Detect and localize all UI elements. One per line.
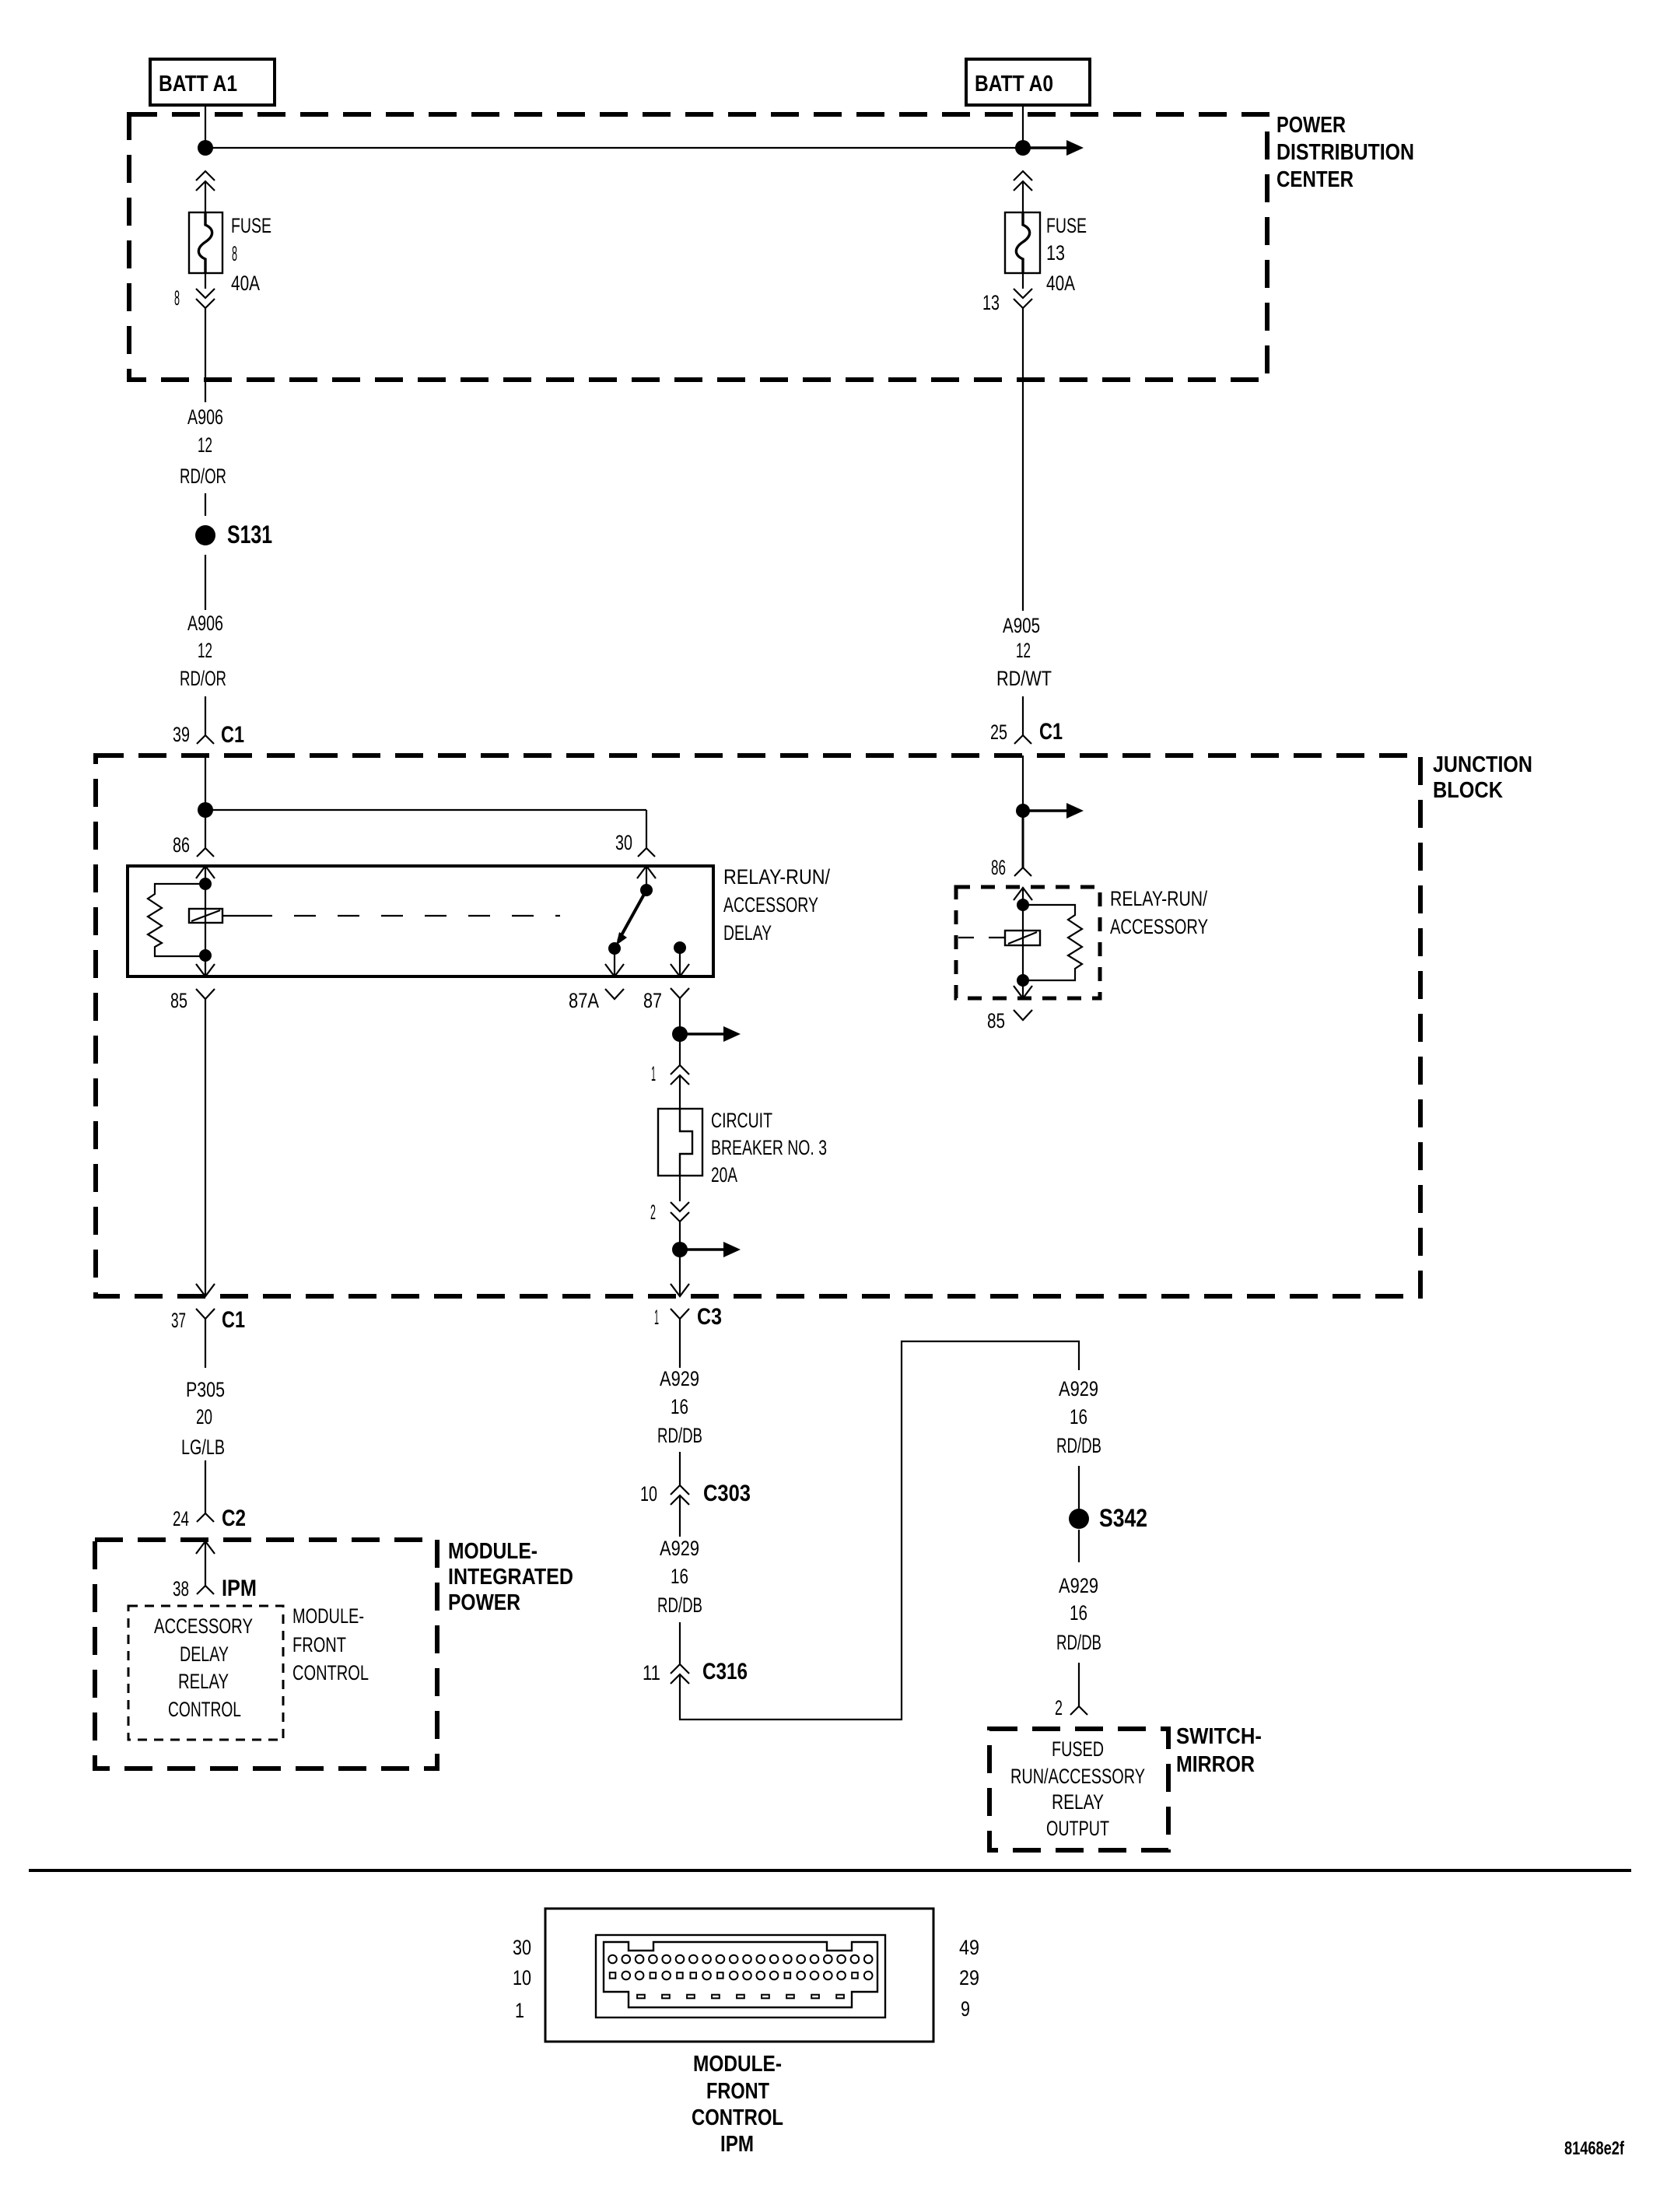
junction dot node left <box>198 802 213 818</box>
wire 87A to border <box>614 948 615 976</box>
node coil bottom <box>199 949 212 962</box>
wire 85 down to JB border <box>205 999 206 1296</box>
svg-text:13: 13 <box>982 291 1000 314</box>
svg-text:8: 8 <box>232 242 237 265</box>
svg-text:CONTROL: CONTROL <box>168 1698 241 1721</box>
wire into C316 <box>679 1622 681 1664</box>
relay run/accessory dashed box <box>956 887 1100 998</box>
node 87A contact <box>608 942 621 955</box>
module-front control IPM connector outer box <box>545 1909 933 2042</box>
svg-text:39: 39 <box>173 723 190 746</box>
svg-text:C316: C316 <box>702 1659 748 1684</box>
svg-text:12: 12 <box>198 433 212 457</box>
svg-text:CONTROL: CONTROL <box>692 2105 783 2130</box>
connector C316 pin 11 <box>643 1659 748 1684</box>
connector C1 pin 39 <box>173 722 244 748</box>
connector C303 pin 10 <box>640 1481 751 1506</box>
junction block dashed box <box>96 755 1420 1296</box>
wire to relay pin 86 <box>205 810 206 848</box>
mechanical link to switch (dashed) <box>222 915 560 917</box>
svg-text:CONTROL: CONTROL <box>292 1661 369 1684</box>
pin 85 exit chevron <box>196 964 215 976</box>
wire label A906 12 RD/OR (upper) <box>180 405 226 488</box>
wire route C316 to mirror switch column <box>680 1341 1079 1719</box>
relay coil <box>189 909 222 923</box>
svg-text:1: 1 <box>515 1999 524 2022</box>
wire 87 output to node <box>679 998 681 1034</box>
label RELAY-RUN/ ACCESSORY <box>1110 887 1208 938</box>
svg-text:A929: A929 <box>1059 1574 1098 1597</box>
pin 87A exit chevron <box>605 964 624 976</box>
svg-text:IPM: IPM <box>720 2132 754 2157</box>
svg-text:A929: A929 <box>1059 1377 1098 1400</box>
label FUSE 8 40A <box>231 214 271 295</box>
connector pin row 3 <box>637 1995 844 1999</box>
label MODULE-INTEGRATED POWER <box>448 1539 573 1615</box>
svg-text:2: 2 <box>1055 1696 1063 1719</box>
svg-text:MODULE-: MODULE- <box>448 1539 538 1564</box>
connector chevrons above fuse 13 <box>1014 171 1032 191</box>
svg-text:RELAY: RELAY <box>1052 1790 1104 1814</box>
svg-text:40A: 40A <box>1046 272 1075 295</box>
svg-text:C1: C1 <box>1039 719 1063 745</box>
svg-text:RD/DB: RD/DB <box>657 1424 702 1447</box>
wire from C1-39 into junction block <box>205 755 206 810</box>
connector C2 pin 24 <box>173 1506 246 1531</box>
arrow feed right 87 output <box>680 1026 741 1042</box>
relay coil right <box>1005 931 1040 945</box>
wire below fuse 13 <box>1022 273 1024 289</box>
svg-text:12: 12 <box>198 639 212 662</box>
svg-text:DISTRIBUTION: DISTRIBUTION <box>1277 140 1414 165</box>
relay pin 86 connector <box>173 833 214 857</box>
wire into C303 <box>679 1452 681 1485</box>
connector IPM pin 38 <box>173 1576 257 1601</box>
wire to junction block edge <box>679 1250 681 1296</box>
svg-text:C3: C3 <box>697 1304 722 1330</box>
svg-text:RD/OR: RD/OR <box>180 464 226 488</box>
svg-text:2: 2 <box>650 1201 656 1224</box>
resistor (relay coil suppression) <box>148 884 205 956</box>
svg-text:A906: A906 <box>187 405 223 429</box>
pin number labels left <box>513 1936 531 2022</box>
svg-text:38: 38 <box>173 1577 189 1600</box>
pin 85 connector right relay <box>987 1009 1032 1032</box>
wire label A929 16 RD/DB (2) <box>657 1537 702 1617</box>
mechanical link stub (dashed) <box>958 937 1005 938</box>
svg-text:1: 1 <box>654 1306 659 1329</box>
svg-text:RD/DB: RD/DB <box>657 1593 702 1617</box>
svg-text:BATT A0: BATT A0 <box>975 72 1053 96</box>
separator line <box>29 1869 1631 1872</box>
svg-text:JUNCTION: JUNCTION <box>1433 752 1532 777</box>
pin 87 connector <box>643 988 689 1012</box>
wire below breaker <box>679 1176 681 1201</box>
wire stub above S342 <box>1078 1466 1080 1509</box>
wire switch common <box>646 866 647 890</box>
svg-text:11: 11 <box>643 1661 660 1684</box>
svg-text:20A: 20A <box>711 1163 737 1187</box>
wire below C1-37 <box>205 1319 206 1368</box>
label ACCESSORY DELAY RELAY CONTROL <box>154 1614 253 1721</box>
relay-run/accessory pin 86 connector <box>991 856 1031 879</box>
module-integrated power dashed box <box>95 1540 437 1769</box>
svg-text:POWER: POWER <box>1277 113 1346 138</box>
svg-text:81468e2f: 81468e2f <box>1564 2138 1625 2159</box>
node coil bottom right relay <box>1017 974 1029 987</box>
svg-text:RD/DB: RD/DB <box>1056 1434 1101 1457</box>
svg-text:A929: A929 <box>660 1537 699 1560</box>
junction dot breaker output <box>672 1242 688 1257</box>
svg-text:FRONT: FRONT <box>292 1633 346 1656</box>
svg-text:C2: C2 <box>222 1506 246 1531</box>
svg-text:A905: A905 <box>1003 614 1040 637</box>
svg-text:16: 16 <box>1070 1405 1087 1429</box>
wire into fuse 13 <box>1022 181 1024 212</box>
svg-text:85: 85 <box>170 989 187 1012</box>
exit chevron at JB border <box>671 1284 689 1296</box>
node coil top <box>199 878 212 890</box>
svg-text:40A: 40A <box>231 272 260 295</box>
connector C1 pin 25 <box>990 719 1063 745</box>
svg-text:86: 86 <box>991 856 1006 879</box>
relay run/accessory delay box <box>128 866 713 976</box>
wire label A906 12 RD/OR (lower) <box>180 612 226 690</box>
svg-text:RUN/ACCESSORY: RUN/ACCESSORY <box>1010 1765 1145 1788</box>
svg-text:ACCESSORY: ACCESSORY <box>1110 915 1208 938</box>
wire below fuse 8 <box>205 273 206 289</box>
wire to relay pin 30 drop <box>646 810 647 848</box>
wire from C1-25 into junction block <box>1022 755 1024 811</box>
wire stub above S131 <box>205 493 206 516</box>
svg-text:20: 20 <box>196 1405 212 1429</box>
svg-text:FUSE: FUSE <box>1046 214 1087 237</box>
pin 86 entry chevron <box>196 866 215 878</box>
wire into connector C1 pin 39 <box>205 696 206 735</box>
connector C1 pin 37 <box>171 1307 245 1333</box>
svg-text:RELAY-RUN/: RELAY-RUN/ <box>723 865 830 889</box>
node coil top right relay <box>1017 899 1029 911</box>
wire across to relay pin 30 <box>205 809 646 811</box>
switch-mirror dashed box <box>989 1729 1168 1850</box>
power distribution center dashed box <box>129 114 1267 380</box>
label FUSE 13 40A <box>1046 214 1087 295</box>
wire label A929 16 RD/DB (3) <box>1056 1377 1101 1457</box>
svg-text:IPM: IPM <box>222 1576 257 1601</box>
svg-text:37: 37 <box>171 1309 186 1332</box>
junction dot 87 output <box>672 1026 688 1042</box>
svg-text:SWITCH-: SWITCH- <box>1176 1724 1262 1749</box>
svg-text:A929: A929 <box>660 1367 699 1390</box>
arrow feed right of BATT A0 node <box>1023 140 1084 156</box>
svg-text:INTEGRATED: INTEGRATED <box>448 1565 573 1590</box>
label MODULE-FRONT CONTROL <box>292 1604 369 1684</box>
svg-text:RELAY-RUN/: RELAY-RUN/ <box>1110 887 1207 910</box>
fuse 13 40A <box>1005 212 1040 273</box>
node BATT A0 <box>966 59 1090 105</box>
wire into circuit breaker <box>679 1075 681 1109</box>
svg-text:FUSE: FUSE <box>231 214 271 237</box>
svg-text:85: 85 <box>987 1009 1005 1032</box>
svg-text:16: 16 <box>671 1395 688 1418</box>
label FUSED RUN/ACCESSORY RELAY OUTPUT <box>1010 1737 1145 1840</box>
wire into fuse 8 <box>205 181 206 212</box>
svg-text:MIRROR: MIRROR <box>1176 1752 1255 1777</box>
connector C3 pin 1 <box>654 1304 722 1330</box>
label SWITCH-MIRROR <box>1176 1724 1262 1777</box>
pin number labels right <box>959 1936 979 2021</box>
svg-text:POWER: POWER <box>448 1590 520 1615</box>
svg-text:87: 87 <box>643 989 662 1012</box>
connector middle box <box>596 1935 885 2017</box>
wire battery bus <box>205 147 1023 149</box>
svg-text:CENTER: CENTER <box>1277 167 1354 192</box>
svg-text:MODULE-: MODULE- <box>292 1604 364 1628</box>
junction dot A0 <box>1015 140 1031 156</box>
wire to output node <box>679 1222 681 1250</box>
svg-text:RELAY: RELAY <box>178 1670 229 1693</box>
svg-text:8: 8 <box>174 286 180 310</box>
relay pin 30 connector <box>615 831 655 857</box>
svg-text:OUTPUT: OUTPUT <box>1046 1817 1109 1840</box>
svg-text:ACCESSORY: ACCESSORY <box>154 1614 253 1638</box>
pin 85 exit chevron right relay <box>1014 986 1032 998</box>
node switch common <box>640 884 653 896</box>
svg-text:P305: P305 <box>186 1378 225 1401</box>
wire IPM input with arrow <box>196 1541 215 1586</box>
svg-text:16: 16 <box>1070 1601 1087 1625</box>
svg-text:RD/WT: RD/WT <box>996 667 1052 690</box>
svg-text:FUSED: FUSED <box>1052 1737 1104 1761</box>
splice S342 <box>1069 1504 1147 1532</box>
wire 87 to border <box>679 948 681 976</box>
wire below S342 <box>1078 1530 1080 1562</box>
splice S131 <box>195 521 272 549</box>
pin 87 exit chevron <box>671 964 689 976</box>
exit chevron at JB border left <box>196 1284 215 1296</box>
svg-text:C1: C1 <box>221 722 244 748</box>
wire label A929 16 RD/DB (1) <box>657 1367 702 1447</box>
svg-text:S131: S131 <box>227 521 272 549</box>
svg-text:DELAY: DELAY <box>180 1642 229 1666</box>
svg-text:FRONT: FRONT <box>706 2079 769 2104</box>
connector pin row 1 <box>608 1955 872 1964</box>
junction dot node right <box>1016 804 1030 818</box>
svg-text:87A: 87A <box>569 989 599 1012</box>
arrow feed right breaker output <box>680 1242 741 1257</box>
connector chevrons breaker pin 2 <box>650 1201 689 1224</box>
svg-text:10: 10 <box>513 1966 531 1989</box>
wire into connector C1 pin 25 <box>1022 696 1024 735</box>
connector chevrons above fuse 8 <box>196 171 215 191</box>
svg-text:86: 86 <box>173 833 190 857</box>
wire label P305 20 LG/LB <box>181 1378 225 1459</box>
svg-text:25: 25 <box>990 720 1007 744</box>
svg-text:BATT A1: BATT A1 <box>159 72 237 96</box>
svg-text:C1: C1 <box>222 1307 245 1333</box>
svg-text:MODULE-: MODULE- <box>693 2052 782 2077</box>
svg-text:16: 16 <box>671 1565 688 1588</box>
label MODULE-FRONT CONTROL IPM <box>692 2052 783 2157</box>
node BATT A1 <box>150 59 275 105</box>
pin 30 entry chevron <box>637 866 656 878</box>
svg-text:30: 30 <box>513 1936 531 1959</box>
svg-text:24: 24 <box>173 1507 189 1530</box>
wire below C303 <box>679 1495 681 1537</box>
label CIRCUIT BREAKER NO.3 20A <box>711 1109 827 1187</box>
wire into mirror switch pin 2 <box>1078 1663 1080 1706</box>
wire below S131 <box>205 555 206 610</box>
svg-text:S342: S342 <box>1099 1504 1147 1532</box>
wire label A929 16 RD/DB (4) <box>1056 1574 1101 1654</box>
node 87 contact <box>674 941 686 954</box>
label JUNCTION BLOCK <box>1433 752 1532 803</box>
svg-text:BREAKER NO. 3: BREAKER NO. 3 <box>711 1136 827 1159</box>
label POWER DISTRIBUTION CENTER <box>1277 113 1414 192</box>
connector pin 2 mirror switch <box>1055 1696 1087 1719</box>
svg-text:CIRCUIT: CIRCUIT <box>711 1109 772 1132</box>
junction dot A1 <box>198 140 213 156</box>
connector pin row 2 <box>610 1972 873 1980</box>
label RELAY-RUN/ ACCESSORY DELAY <box>723 865 830 945</box>
svg-text:C303: C303 <box>703 1481 751 1506</box>
wire A905 out of PDC <box>1022 308 1024 611</box>
svg-text:29: 29 <box>959 1966 979 1989</box>
wire coil vertical right relay <box>1022 888 1024 998</box>
svg-text:RD/DB: RD/DB <box>1056 1631 1101 1654</box>
svg-text:BLOCK: BLOCK <box>1433 778 1503 803</box>
wire coil branch vertical <box>205 866 206 976</box>
svg-text:RD/OR: RD/OR <box>180 667 226 690</box>
connector chevrons breaker pin 1 <box>651 1062 689 1085</box>
svg-text:1: 1 <box>651 1062 656 1085</box>
connector chevrons below fuse 13 <box>1014 289 1032 308</box>
wire below C3 <box>679 1319 681 1368</box>
switch arm <box>616 890 646 945</box>
wire to relay-run/accessory pin 86 <box>1022 811 1024 868</box>
wire BATT A0 lead <box>1022 105 1024 148</box>
svg-text:30: 30 <box>615 831 632 854</box>
wire into C2 pin 24 <box>205 1460 206 1513</box>
svg-text:ACCESSORY: ACCESSORY <box>723 893 818 917</box>
fuse 8 40A <box>189 212 222 273</box>
svg-text:49: 49 <box>959 1936 979 1959</box>
svg-text:A906: A906 <box>187 612 223 635</box>
wire A906 out of PDC <box>205 308 206 402</box>
svg-text:12: 12 <box>1016 639 1031 662</box>
resistor right relay <box>1023 905 1082 980</box>
wire BATT A1 lead <box>205 105 206 148</box>
pin 85 connector <box>170 989 215 1012</box>
svg-text:LG/LB: LG/LB <box>181 1436 225 1459</box>
wire label A905 12 RD/WT <box>996 614 1052 690</box>
svg-text:DELAY: DELAY <box>723 921 772 945</box>
wire to circuit breaker pin 1 <box>679 1034 681 1065</box>
arrow feed right JB <box>1023 803 1084 819</box>
svg-text:10: 10 <box>640 1482 657 1506</box>
svg-text:9: 9 <box>961 1997 970 2021</box>
accessory delay relay control dashed box <box>128 1606 283 1740</box>
connector chevrons below fuse 8 <box>196 289 215 308</box>
pin 86 entry chevron right relay <box>1014 888 1032 900</box>
circuit breaker no.3 <box>658 1109 702 1176</box>
pin 87A connector <box>569 989 624 1012</box>
svg-text:13: 13 <box>1046 241 1065 265</box>
connector keyed face outline <box>604 1942 877 2007</box>
